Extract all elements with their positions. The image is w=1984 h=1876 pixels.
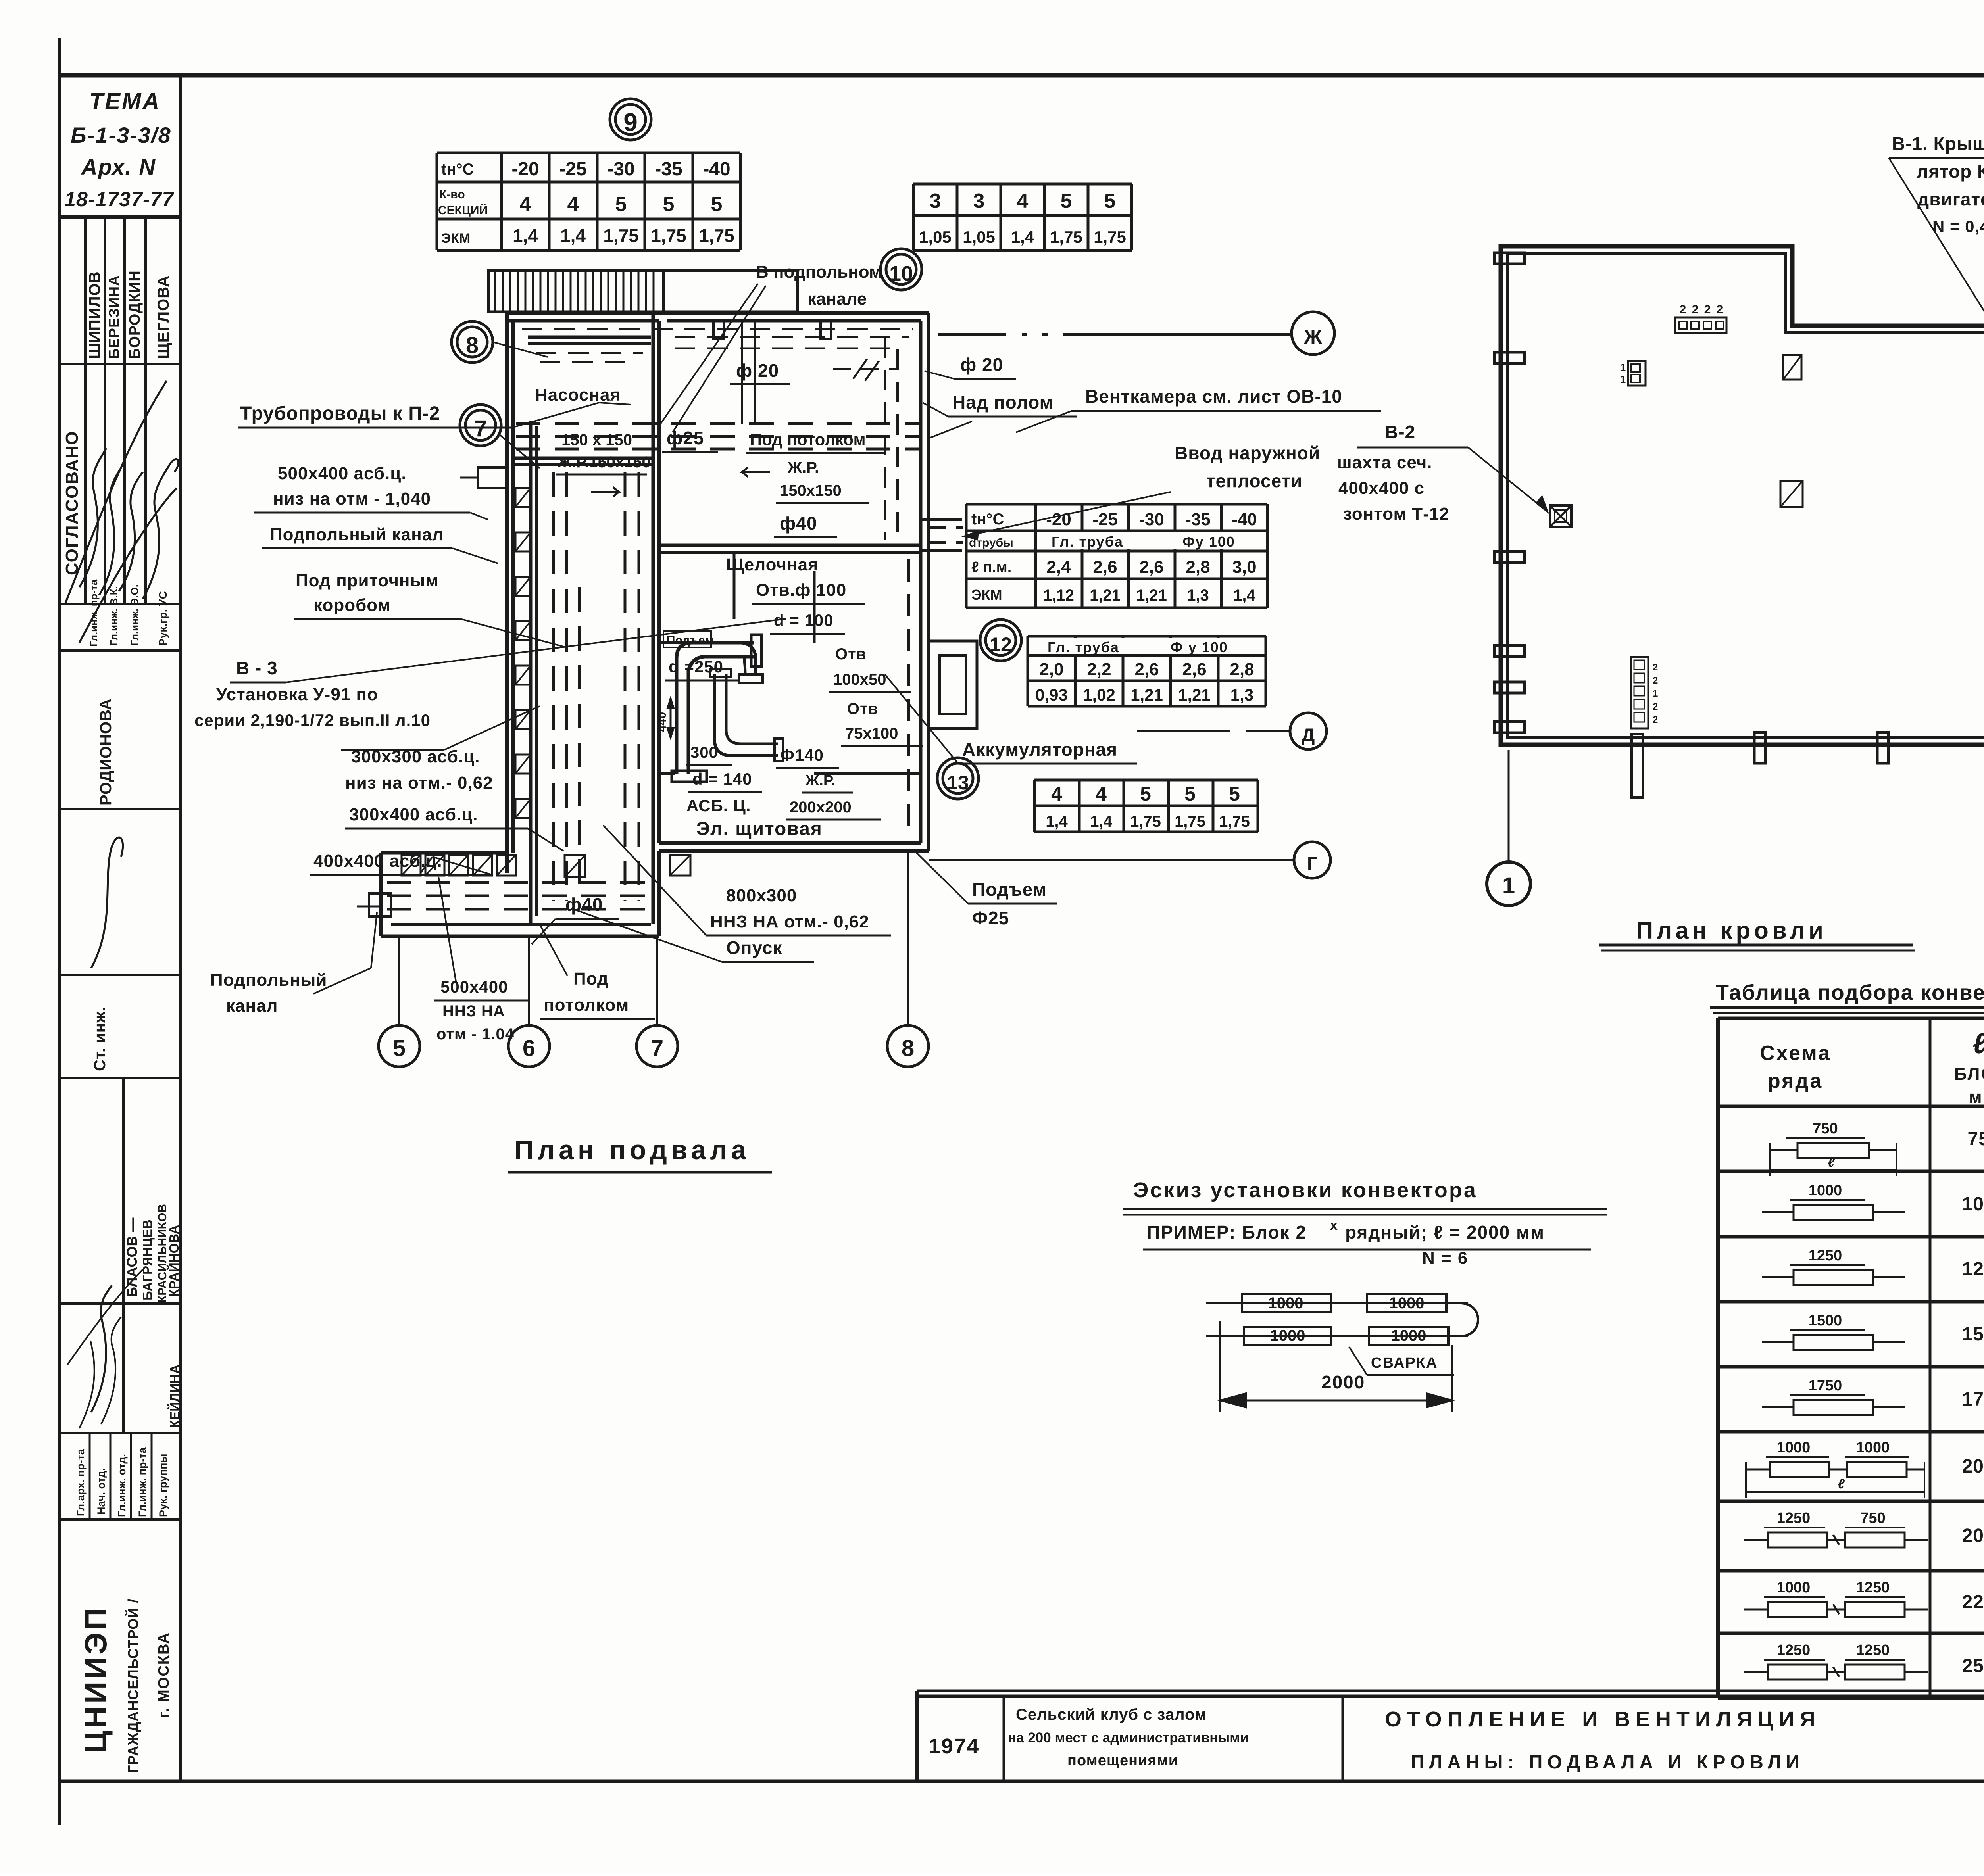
svg-text:В-1. Крышный венти-: В-1. Крышный венти-	[1892, 133, 1984, 154]
svg-text:3,0: 3,0	[1232, 557, 1256, 577]
svg-text:БЛАСОВ —: БЛАСОВ —	[124, 1218, 140, 1297]
svg-text:Рук. группы: Рук. группы	[157, 1454, 169, 1517]
central pipe elbows cluster	[677, 659, 688, 774]
grid circle Г	[1294, 842, 1330, 878]
svg-text:1250: 1250	[1856, 1579, 1890, 1596]
svg-text:3: 3	[930, 190, 941, 213]
svg-text:5: 5	[1061, 190, 1072, 213]
svg-text:лятор КЦ3 - 90 N4 с эл.: лятор КЦ3 - 90 N4 с эл.	[1917, 161, 1984, 182]
svg-text:В-2: В-2	[1385, 422, 1415, 442]
svg-text:2,2: 2,2	[1087, 660, 1111, 679]
svg-text:13: 13	[947, 772, 969, 794]
svg-text:Венткамера см. лист ОВ-10: Венткамера см. лист ОВ-10	[1085, 386, 1342, 407]
svg-text:750: 750	[1813, 1120, 1838, 1137]
svg-text:750: 750	[1967, 1129, 1984, 1150]
svg-text:12: 12	[990, 634, 1012, 656]
svg-text:канал: канал	[226, 996, 278, 1016]
svg-text:150х150: 150х150	[780, 482, 842, 499]
svg-text:ШИПИЛОВ: ШИПИЛОВ	[86, 271, 104, 359]
sheet left border	[58, 75, 61, 1825]
roof vertical strip box bottom-left	[1631, 657, 1648, 728]
svg-text:1: 1	[1502, 873, 1515, 899]
svg-text:18-1737-77: 18-1737-77	[64, 188, 174, 211]
svg-text:5: 5	[663, 193, 675, 216]
svg-text:Гл. труба: Гл. труба	[1048, 639, 1119, 655]
svg-text:1250: 1250	[1962, 1259, 1984, 1280]
svg-text:1974: 1974	[929, 1734, 979, 1758]
svg-text:Г: Г	[1307, 853, 1317, 874]
svg-text:-35: -35	[1185, 510, 1211, 529]
circle 13	[937, 758, 979, 799]
dashed pipes in nasosnaya	[536, 352, 643, 354]
svg-text:2: 2	[1680, 303, 1686, 316]
svg-text:2: 2	[1704, 303, 1711, 316]
svg-text:План кровли: План кровли	[1636, 917, 1827, 944]
svg-text:Опуск: Опуск	[726, 937, 782, 958]
sheet top border	[60, 73, 1984, 78]
basement: hatched band (stairs)	[488, 271, 798, 312]
svg-text:Схема: Схема	[1760, 1042, 1831, 1065]
svg-text:4: 4	[567, 193, 579, 216]
svg-text:Ж.Р.: Ж.Р.	[787, 459, 819, 476]
svg-text:4: 4	[1096, 783, 1107, 805]
svg-text:1,75: 1,75	[603, 225, 639, 246]
svg-text:БЕРЕЗИНА: БЕРЕЗИНА	[106, 275, 122, 359]
right appendix duct loop	[929, 641, 977, 728]
svg-text:4: 4	[520, 193, 531, 216]
svg-text:г. МОСКВА: г. МОСКВА	[156, 1632, 172, 1718]
grid circle 8 bottom of basement	[887, 1025, 929, 1067]
svg-text:Подъем: Подъем	[972, 879, 1047, 900]
svg-text:-30: -30	[607, 159, 634, 180]
svg-text:1000: 1000	[1391, 1327, 1426, 1344]
svg-text:1: 1	[1653, 688, 1658, 699]
svg-text:10: 10	[889, 262, 913, 286]
svg-text:1000: 1000	[1389, 1294, 1425, 1312]
svg-text:1,05: 1,05	[963, 228, 995, 246]
svg-text:2,4: 2,4	[1046, 557, 1071, 577]
circle 12	[980, 620, 1021, 661]
svg-text:tн°C: tн°C	[971, 511, 1004, 528]
sketch blocks row 2	[1206, 1335, 1468, 1337]
svg-text:Арх. N: Арх. N	[81, 154, 156, 179]
svg-text:1,4: 1,4	[560, 225, 586, 246]
svg-text:8: 8	[466, 332, 479, 358]
svg-text:300х400 асб.ц.: 300х400 асб.ц.	[349, 805, 478, 824]
svg-text:5: 5	[1229, 783, 1240, 805]
svg-text:ℓ п.м.: ℓ п.м.	[971, 559, 1011, 576]
svg-text:Гл.инж. В.К.: Гл.инж. В.К.	[108, 586, 120, 646]
label Подъем (small box)	[663, 631, 711, 647]
dashed pipes room B top	[675, 336, 909, 338]
corridor walls vertical	[529, 421, 533, 924]
svg-text:1000: 1000	[1270, 1327, 1305, 1344]
upper room vertical duct pair	[741, 321, 743, 424]
svg-text:1,75: 1,75	[651, 225, 686, 246]
dashed pipes bottom horizontal	[387, 881, 657, 884]
svg-text:ЭКМ: ЭКМ	[441, 231, 470, 246]
svg-text:Щелочная: Щелочная	[726, 555, 819, 574]
svg-text:Ввод наружной: Ввод наружной	[1175, 443, 1320, 463]
svg-text:Б-1-3-3/8: Б-1-3-3/8	[71, 123, 171, 148]
schelochnaya inner walls	[733, 553, 736, 619]
svg-text:К-во: К-во	[439, 188, 465, 201]
svg-text:200х200: 200х200	[790, 799, 852, 816]
svg-text:Под потолком: Под потолком	[750, 430, 866, 449]
svg-text:d = 100: d = 100	[774, 611, 834, 630]
svg-text:Ст. инж.: Ст. инж.	[91, 1006, 109, 1071]
signatures lower	[91, 1285, 112, 1412]
svg-text:440: 440	[656, 712, 669, 732]
svg-text:Трубопроводы к П-2: Трубопроводы к П-2	[240, 403, 440, 424]
svg-text:tн°C: tн°C	[441, 161, 474, 178]
sheet left border tick above corner	[58, 38, 61, 75]
svg-text:1250: 1250	[1856, 1642, 1890, 1659]
svg-text:1500: 1500	[1809, 1312, 1842, 1329]
sheet bottom border	[60, 1780, 1984, 1783]
svg-text:Ф у 100: Ф у 100	[1171, 639, 1228, 655]
svg-text:Отв: Отв	[835, 645, 866, 663]
svg-text:на 200 мест с административным: на 200 мест с административными	[1008, 1730, 1249, 1745]
svg-text:ряда: ряда	[1768, 1070, 1823, 1093]
svg-text:2: 2	[1653, 701, 1658, 712]
svg-text:2: 2	[1653, 714, 1658, 725]
svg-text:Эскиз установки конвектора: Эскиз установки конвектора	[1133, 1178, 1477, 1202]
svg-text:Ж.Р.150х150: Ж.Р.150х150	[557, 453, 651, 471]
svg-text:1000: 1000	[1268, 1294, 1303, 1312]
svg-text:Таблица подбора конвенторов: Таблица подбора конвенторов плинтусных б…	[1716, 981, 1984, 1004]
svg-text:1,3: 1,3	[1187, 587, 1209, 604]
svg-text:АСБ. Ц.: АСБ. Ц.	[686, 796, 751, 815]
svg-text:х: х	[1330, 1218, 1338, 1233]
roof diagonal-square 1	[1783, 355, 1801, 380]
sketch blocks row 1	[1206, 1302, 1468, 1304]
svg-text:отм - 1.04: отм - 1.04	[436, 1025, 514, 1043]
svg-text:dтрубы: dтрубы	[969, 536, 1013, 549]
svg-text:1,75: 1,75	[1175, 813, 1205, 830]
svg-text:d = 140: d = 140	[692, 770, 752, 788]
svg-text:2000: 2000	[1962, 1525, 1984, 1546]
svg-text:400х400 с: 400х400 с	[1338, 478, 1425, 498]
svg-text:План подвала: План подвала	[514, 1135, 750, 1165]
svg-text:2,6: 2,6	[1093, 557, 1117, 577]
svg-text:коробом: коробом	[313, 595, 391, 615]
svg-text:1,75: 1,75	[1094, 228, 1126, 246]
svg-text:Подпольный: Подпольный	[210, 970, 327, 990]
basement annex (bottom-left) walls	[381, 851, 507, 855]
svg-text:2000: 2000	[1962, 1456, 1984, 1477]
svg-text:1,21: 1,21	[1136, 587, 1167, 604]
svg-text:БАГРЯНЦЕВ: БАГРЯНЦЕВ	[140, 1219, 155, 1300]
svg-text:5: 5	[615, 193, 627, 216]
svg-text:-25: -25	[1092, 510, 1118, 529]
svg-text:5: 5	[1184, 783, 1196, 805]
svg-text:1250: 1250	[1777, 1642, 1811, 1659]
grid circle Д	[1290, 713, 1327, 749]
svg-text:Подъем: Подъем	[667, 634, 714, 647]
svg-text:1000: 1000	[1856, 1439, 1890, 1456]
svg-text:1,21: 1,21	[1178, 685, 1211, 704]
svg-text:1,4: 1,4	[1011, 228, 1034, 246]
svg-text:800х300: 800х300	[726, 886, 797, 905]
svg-text:1250: 1250	[1809, 1247, 1842, 1264]
small outlet box left of annex	[369, 893, 391, 916]
svg-text:1250: 1250	[1777, 1510, 1811, 1527]
svg-text:1,75: 1,75	[1219, 813, 1250, 830]
svg-text:зонтом Т-12: зонтом Т-12	[1343, 504, 1450, 524]
svg-text:Подпольный канал: Подпольный канал	[270, 525, 444, 544]
svg-text:2000: 2000	[1321, 1372, 1365, 1392]
svg-text:-35: -35	[655, 159, 682, 180]
svg-text:9: 9	[623, 108, 638, 136]
svg-text:5: 5	[711, 193, 723, 216]
svg-text:ф40: ф40	[780, 513, 817, 534]
svg-text:Сельский клуб с залом: Сельский клуб с залом	[1016, 1706, 1207, 1723]
svg-text:0,93: 0,93	[1035, 685, 1068, 704]
circle 7 left	[460, 405, 501, 446]
svg-text:2,6: 2,6	[1182, 660, 1206, 679]
svg-text:500х400: 500х400	[440, 977, 508, 996]
svg-text:КЕЙЛИНА: КЕЙЛИНА	[167, 1365, 182, 1428]
svg-text:5: 5	[1140, 783, 1151, 805]
svg-text:1,05: 1,05	[919, 228, 952, 246]
В-2 shaft symbol	[1550, 505, 1571, 527]
svg-text:750: 750	[1860, 1510, 1885, 1527]
svg-text:ННЗ НА отм.- 0,62: ННЗ НА отм.- 0,62	[710, 912, 869, 931]
svg-text:Гл.арх. пр-та: Гл.арх. пр-та	[75, 1448, 87, 1516]
svg-text:Гл.инж. отд.: Гл.инж. отд.	[116, 1454, 128, 1517]
svg-text:1,4: 1,4	[1046, 813, 1068, 830]
svg-text:1: 1	[1620, 373, 1626, 385]
svg-text:СОГЛАСОВАНО: СОГЛАСОВАНО	[62, 430, 82, 575]
svg-text:Ф25: Ф25	[972, 908, 1009, 928]
svg-text:1,21: 1,21	[1090, 587, 1121, 604]
svg-text:1750: 1750	[1809, 1377, 1842, 1394]
svg-text:помещениями: помещениями	[1067, 1752, 1178, 1769]
svg-text:2: 2	[1692, 303, 1699, 316]
svg-text:Аккумуляторная: Аккумуляторная	[962, 739, 1117, 760]
svg-text:2: 2	[1653, 662, 1658, 673]
svg-text:Эл. щитовая: Эл. щитовая	[696, 818, 823, 839]
svg-text:серии 2,190-1/72 вып.II л.10: серии 2,190-1/72 вып.II л.10	[194, 711, 431, 730]
svg-text:7: 7	[651, 1035, 663, 1061]
svg-text:БОРОДКИН: БОРОДКИН	[127, 270, 143, 359]
svg-text:-40: -40	[703, 159, 730, 180]
svg-text:ЩЕГЛОВА: ЩЕГЛОВА	[155, 275, 172, 359]
svg-text:БЛОКА: БЛОКА	[1954, 1064, 1984, 1084]
circle 10	[880, 249, 922, 290]
svg-text:1000: 1000	[1962, 1194, 1984, 1215]
svg-text:ф25: ф25	[667, 428, 704, 448]
svg-text:ПЛАНЫ: ПОДВАЛА И КРОВЛИ: ПЛАНЫ: ПОДВАЛА И КРОВЛИ	[1411, 1752, 1804, 1773]
bottom job labels row	[89, 1433, 91, 1519]
svg-text:2,0: 2,0	[1039, 660, 1063, 679]
strip name columns upper	[84, 217, 87, 604]
svg-text:Гл.инж. пр-та: Гл.инж. пр-та	[136, 1447, 148, 1517]
svg-text:1750: 1750	[1962, 1389, 1984, 1410]
svg-text:d =250: d =250	[669, 657, 723, 676]
svg-text:2,6: 2,6	[1134, 660, 1159, 679]
svg-text:СЕКЦИЙ: СЕКЦИЙ	[438, 204, 488, 217]
svg-text:Д: Д	[1302, 724, 1315, 745]
svg-text:-20: -20	[1046, 510, 1071, 529]
svg-text:Ж: Ж	[1303, 326, 1322, 348]
svg-text:канале: канале	[807, 289, 867, 309]
svg-text:Отв.ф 100: Отв.ф 100	[756, 580, 846, 600]
svg-text:2,6: 2,6	[1139, 557, 1163, 577]
svg-text:2,8: 2,8	[1230, 660, 1254, 679]
roof grid circle 1	[1487, 862, 1530, 906]
svg-text:шахта сеч.: шахта сеч.	[1337, 453, 1432, 472]
nasosnaya room bottom wall	[513, 457, 653, 460]
svg-text:1,3: 1,3	[1230, 685, 1253, 704]
svg-text:низ на отм - 1,040: низ на отм - 1,040	[273, 489, 431, 509]
svg-text:1,4: 1,4	[1090, 813, 1112, 830]
svg-text:КРАЙНОВА: КРАЙНОВА	[166, 1225, 181, 1297]
svg-text:низ на отм.- 0,62: низ на отм.- 0,62	[345, 773, 493, 793]
svg-text:ГРАЖДАНСЕЛЬСТРОЙ /: ГРАЖДАНСЕЛЬСТРОЙ /	[125, 1599, 141, 1773]
roof small box pair left	[1628, 361, 1646, 386]
svg-text:Отв: Отв	[847, 700, 878, 718]
svg-text:Под: Под	[573, 969, 609, 989]
circle 8 left	[452, 321, 493, 363]
svg-text:В - 3: В - 3	[236, 658, 278, 678]
svg-text:1,75: 1,75	[1130, 813, 1161, 830]
svg-text:Установка У-91 по: Установка У-91 по	[216, 685, 378, 704]
svg-text:Гл. труба: Гл. труба	[1052, 534, 1123, 550]
TEMA block	[60, 215, 181, 219]
svg-text:6: 6	[523, 1035, 535, 1061]
roof plan outer wall (with notch) double line	[1501, 246, 1984, 745]
grid circle 5 bottom of basement	[379, 1025, 420, 1067]
svg-text:Гл.инж. Э.О.: Гл.инж. Э.О.	[129, 584, 140, 646]
table 13	[1033, 780, 1036, 832]
svg-text:1,75: 1,75	[1050, 228, 1082, 246]
svg-text:ℓ: ℓ	[1828, 1155, 1835, 1170]
svg-text:2: 2	[1717, 303, 1723, 316]
svg-text:8: 8	[902, 1035, 914, 1061]
svg-text:75х100: 75х100	[845, 725, 898, 742]
svg-text:2500: 2500	[1962, 1655, 1984, 1676]
signatures upper (squiggles)	[79, 448, 106, 587]
svg-text:теплосети: теплосети	[1206, 470, 1302, 491]
svg-text:N = 6: N = 6	[1422, 1248, 1468, 1268]
svg-text:Насосная: Насосная	[535, 385, 621, 405]
grid circle 6 bottom of basement	[508, 1025, 550, 1067]
small table top right of 9	[912, 184, 915, 250]
left title strip outer	[179, 75, 182, 1781]
svg-text:100х50: 100х50	[833, 671, 886, 688]
teploset table	[965, 504, 968, 608]
svg-text:ф 20: ф 20	[960, 354, 1003, 375]
stub box on left wall (podpolny kanal)	[478, 467, 507, 488]
svg-text:150 х 150: 150 х 150	[561, 431, 632, 449]
svg-text:ℓ: ℓ	[1972, 1028, 1984, 1060]
svg-text:ЦНИИЭП: ЦНИИЭП	[78, 1605, 113, 1753]
svg-text:ПРИМЕР: Блок 2: ПРИМЕР: Блок 2	[1147, 1222, 1307, 1242]
tall tick bottom-left	[1632, 734, 1643, 797]
grid circle 7 bottom of basement	[636, 1025, 678, 1067]
big table grid	[1718, 1017, 1984, 1020]
svg-text:-25: -25	[559, 159, 586, 180]
svg-text:ТЕМА: ТЕМА	[89, 88, 161, 114]
svg-text:-40: -40	[1232, 510, 1257, 529]
convector boxes in annex	[402, 855, 421, 876]
svg-text:-20: -20	[511, 159, 539, 180]
svg-text:Нач. отд.: Нач. отд.	[95, 1468, 107, 1515]
svg-text:-30: -30	[1139, 510, 1164, 529]
roof diagonal-square 2	[1780, 481, 1803, 507]
U-turn connector right	[1460, 1303, 1478, 1336]
svg-text:мм: мм	[1969, 1087, 1984, 1107]
svg-text:1000: 1000	[1777, 1439, 1811, 1456]
svg-text:1: 1	[1620, 361, 1626, 373]
svg-text:Над полом: Над полом	[952, 392, 1054, 413]
svg-text:ОТОПЛЕНИЕ И ВЕНТИЛЯЦИЯ: ОТОПЛЕНИЕ И ВЕНТИЛЯЦИЯ	[1385, 1707, 1821, 1731]
svg-text:СВАРКА: СВАРКА	[1371, 1355, 1438, 1371]
svg-text:РОДИОНОВА: РОДИОНОВА	[97, 698, 115, 805]
svg-text:ф 20: ф 20	[736, 360, 779, 381]
svg-text:1,02: 1,02	[1083, 685, 1115, 704]
svg-text:500х400 асб.ц.: 500х400 асб.ц.	[278, 464, 407, 483]
svg-text:рядный; ℓ = 2000 мм: рядный; ℓ = 2000 мм	[1345, 1222, 1545, 1242]
svg-text:Ф140: Ф140	[780, 746, 824, 764]
lower names columns	[122, 1078, 125, 1433]
room B lower wall	[659, 544, 921, 547]
strip section dividers	[60, 363, 181, 365]
dimension 2000	[1219, 1321, 1221, 1412]
svg-text:двигателем АОЛ2-11-6: двигателем АОЛ2-11-6	[1917, 189, 1984, 209]
el.shchitovaya top wall	[659, 772, 675, 775]
signature Родионова	[91, 837, 123, 968]
svg-text:1,4: 1,4	[1233, 587, 1255, 604]
svg-text:Фу 100: Фу 100	[1182, 534, 1235, 550]
svg-text:потолком: потолком	[544, 995, 629, 1015]
svg-text:Гл.инж. пр-та: Гл.инж. пр-та	[88, 579, 100, 647]
basement outer walls	[507, 311, 929, 315]
dashed pipe runs: corridor vertical	[552, 472, 555, 901]
table 9 (radiator sections)	[436, 153, 438, 250]
roof boxes: 2222 group	[1675, 317, 1726, 333]
svg-text:5: 5	[393, 1035, 406, 1061]
svg-text:4: 4	[1051, 783, 1062, 805]
table 12	[1027, 636, 1029, 706]
svg-text:N = 0,4 квт, п = 915 об/ мин: N = 0,4 квт, п = 915 об/ мин	[1932, 217, 1984, 236]
svg-text:ННЗ НА: ННЗ НА	[442, 1002, 505, 1020]
wall duct stubs left corridor	[515, 488, 531, 507]
left wall stubs	[1494, 253, 1525, 264]
svg-text:1,75: 1,75	[699, 225, 734, 246]
svg-text:1,4: 1,4	[513, 225, 538, 246]
svg-text:Рук.гр. УС: Рук.гр. УС	[157, 591, 169, 646]
svg-text:1,21: 1,21	[1130, 685, 1163, 704]
title block frame	[917, 1695, 1984, 1698]
svg-text:4: 4	[1017, 190, 1029, 213]
circle 9	[610, 99, 651, 140]
svg-text:2250: 2250	[1962, 1592, 1984, 1613]
svg-text:ЭКМ: ЭКМ	[971, 587, 1002, 603]
dashed pipe runs: upper horizontal bundle	[516, 422, 920, 425]
big diagonal crossing strokes	[65, 381, 167, 603]
svg-text:1000: 1000	[1777, 1579, 1811, 1596]
svg-text:Под приточным: Под приточным	[296, 571, 439, 590]
svg-text:1500: 1500	[1962, 1324, 1984, 1345]
svg-text:5: 5	[1104, 190, 1116, 213]
svg-text:Ж.Р.: Ж.Р.	[805, 772, 835, 789]
svg-text:300: 300	[690, 744, 718, 761]
leaders from label into plan	[659, 284, 758, 426]
svg-text:400х400 асб.ц.: 400х400 асб.ц.	[313, 851, 442, 871]
